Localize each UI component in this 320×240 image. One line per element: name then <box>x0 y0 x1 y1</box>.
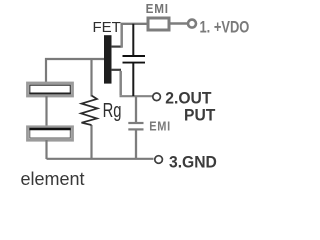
svg-text:EMI: EMI <box>149 120 171 134</box>
svg-text:PUT: PUT <box>184 106 215 124</box>
svg-text:EMI: EMI <box>146 2 169 17</box>
svg-text:3.GND: 3.GND <box>169 153 217 171</box>
svg-text:Rg: Rg <box>103 99 122 122</box>
svg-text:FET: FET <box>93 19 121 36</box>
svg-text:1. +VDO: 1. +VDO <box>200 18 250 37</box>
svg-text:element: element <box>21 169 85 189</box>
svg-text:2.OUT: 2.OUT <box>165 89 211 107</box>
